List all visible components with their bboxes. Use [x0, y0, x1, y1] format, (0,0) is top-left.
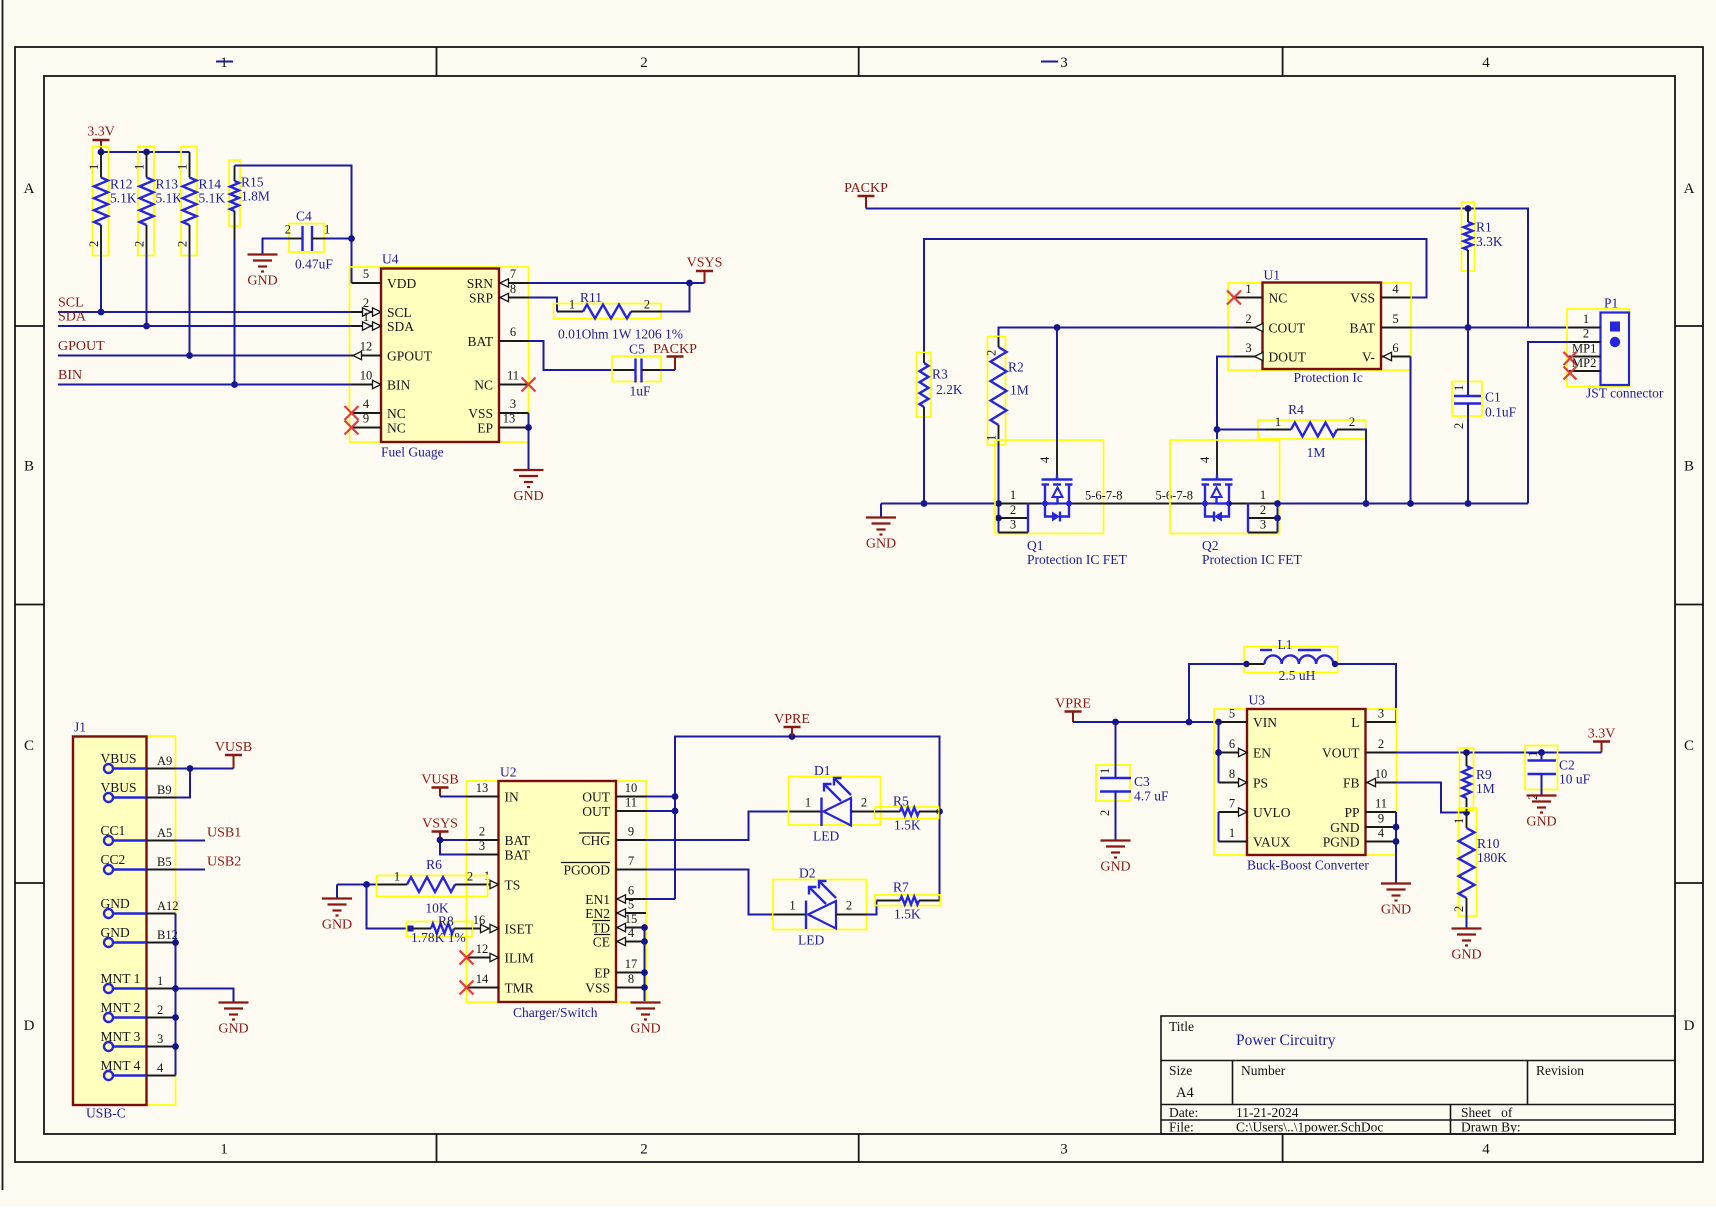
resistor R3	[917, 353, 963, 418]
svg-text:1: 1	[1098, 768, 1112, 774]
P1 pin 2	[1569, 327, 1601, 343]
svg-text:1: 1	[220, 1142, 228, 1158]
svg-text:2: 2	[1245, 312, 1251, 326]
wire R4 pin2 to GND bus	[1362, 430, 1369, 507]
svg-text:5: 5	[363, 267, 369, 281]
capacitor C2	[1525, 746, 1591, 801]
wire P1 pin2 to GND bus	[1528, 342, 1569, 504]
wire OUT11	[646, 810, 675, 812]
U3 pin 2 VOUT	[1322, 737, 1396, 761]
svg-text:2: 2	[640, 55, 648, 71]
LED D2	[773, 866, 867, 948]
svg-text:GND: GND	[866, 537, 896, 552]
IC U4 Fuel Gauge	[350, 252, 529, 460]
J1 pin 3 MNT 3	[101, 1029, 176, 1051]
svg-text:CC1: CC1	[101, 823, 126, 838]
svg-text:4: 4	[1482, 55, 1490, 71]
svg-text:SDA: SDA	[58, 310, 87, 325]
U2 pin 13 IN	[467, 781, 519, 805]
J1 pin 2 MNT 2	[101, 1000, 176, 1022]
U3 pin 5 VIN	[1219, 707, 1278, 731]
svg-text:1: 1	[133, 164, 147, 170]
svg-text:B: B	[24, 459, 34, 475]
svg-text:VOUT: VOUT	[1322, 746, 1360, 761]
svg-text:16: 16	[473, 913, 486, 927]
U4 pin 9 NC	[345, 412, 406, 436]
svg-text:Title: Title	[1169, 1019, 1194, 1034]
U2 pin 16 ISET	[472, 913, 534, 937]
svg-text:7: 7	[1229, 797, 1235, 811]
svg-text:6: 6	[1229, 737, 1235, 751]
svg-text:13: 13	[503, 412, 516, 426]
power symbol VUSB at J1	[215, 740, 252, 769]
svg-text:7: 7	[628, 854, 634, 868]
svg-text:17: 17	[625, 957, 638, 971]
transistor Q2	[1170, 440, 1280, 534]
svg-text:BAT: BAT	[467, 334, 493, 349]
svg-text:4: 4	[1038, 456, 1052, 463]
svg-text:VIN: VIN	[1253, 715, 1277, 730]
svg-text:3: 3	[1060, 55, 1068, 71]
svg-text:14: 14	[476, 972, 489, 986]
svg-text:Revision: Revision	[1536, 1063, 1584, 1078]
svg-text:3: 3	[1378, 707, 1384, 721]
svg-text:Size: Size	[1169, 1063, 1192, 1078]
svg-text:VBUS: VBUS	[101, 780, 137, 795]
svg-text:5: 5	[1392, 312, 1398, 326]
svg-text:R9: R9	[1476, 767, 1492, 782]
svg-text:PGOOD: PGOOD	[563, 863, 610, 878]
U3 pin 4 PGND	[1323, 826, 1396, 850]
svg-text:NC: NC	[1269, 291, 1288, 306]
svg-text:2: 2	[87, 241, 101, 247]
svg-text:A4: A4	[1176, 1085, 1194, 1101]
Q1 pins join	[1027, 504, 1029, 533]
U4 pin 11 NC	[474, 369, 535, 393]
Q1 pin 3	[999, 518, 1029, 533]
U4 pin 4 NC	[345, 397, 406, 421]
wire L1 to L pin	[1335, 664, 1396, 722]
wire GPOUT	[58, 355, 352, 357]
U2 pin 17 EP	[594, 957, 646, 981]
svg-text:R2: R2	[1008, 360, 1024, 375]
svg-text:CC2: CC2	[101, 852, 126, 867]
svg-text:TMR: TMR	[505, 981, 534, 996]
svg-text:9: 9	[363, 412, 369, 426]
power symbol VSYS at U2	[422, 817, 458, 841]
svg-text:1: 1	[805, 796, 811, 810]
svg-text:GND: GND	[247, 274, 277, 289]
svg-text:U4: U4	[382, 252, 399, 267]
svg-text:2: 2	[1010, 503, 1016, 517]
ground GND at U2	[630, 1003, 660, 1037]
svg-text:VUSB: VUSB	[215, 740, 252, 755]
U4 pin 13 EP	[477, 412, 528, 436]
svg-text:MNT 1: MNT 1	[101, 971, 141, 986]
ground GND at C2	[1526, 796, 1556, 830]
svg-text:4: 4	[1198, 456, 1212, 463]
wire VSS4 to R3	[924, 239, 1427, 353]
wire C1 to GND bus	[1465, 404, 1472, 507]
svg-text:3: 3	[1260, 518, 1266, 532]
wire BAT to C5	[529, 341, 614, 370]
svg-text:1: 1	[569, 298, 575, 312]
U2 pin 7 PGOOD	[561, 854, 646, 878]
svg-text:1M: 1M	[1307, 445, 1326, 460]
svg-text:3: 3	[157, 1032, 163, 1046]
wire SRN to VSYS	[529, 280, 705, 287]
svg-text:OUT: OUT	[582, 790, 610, 805]
svg-text:C4: C4	[296, 209, 312, 224]
svg-text:SCL: SCL	[387, 305, 412, 320]
power symbol 3.3V	[87, 125, 115, 153]
svg-text:3.3V: 3.3V	[87, 125, 115, 140]
svg-text:1M: 1M	[1010, 383, 1029, 398]
svg-text:R3: R3	[932, 367, 948, 382]
svg-text:5.1K: 5.1K	[156, 191, 183, 206]
U1 pin 4 VSS	[1350, 282, 1410, 306]
svg-text:GND: GND	[1381, 903, 1411, 918]
svg-text:R7: R7	[893, 880, 909, 895]
svg-text:NC: NC	[387, 406, 406, 421]
svg-text:0.01Ohm 1W 1206 1%: 0.01Ohm 1W 1206 1%	[558, 327, 683, 342]
wire R15 to BIN	[231, 240, 238, 388]
svg-text:Power Circuitry: Power Circuitry	[1236, 1032, 1336, 1049]
svg-text:7: 7	[510, 267, 516, 281]
svg-text:BAT: BAT	[1349, 321, 1375, 336]
svg-text:Q2: Q2	[1202, 538, 1219, 553]
svg-text:VAUX: VAUX	[1253, 835, 1291, 850]
svg-text:2: 2	[1452, 906, 1466, 912]
svg-text:GND: GND	[218, 1022, 248, 1037]
inductor L1	[1243, 637, 1338, 683]
svg-text:1M: 1M	[1476, 781, 1495, 796]
svg-text:GND: GND	[1526, 815, 1556, 830]
wire UVLO VAUX join	[1218, 812, 1220, 842]
svg-text:L1: L1	[1278, 637, 1293, 652]
svg-text:11: 11	[625, 796, 637, 810]
LED D1	[789, 763, 881, 844]
svg-text:VDD: VDD	[387, 276, 416, 291]
svg-text:2: 2	[1260, 503, 1266, 517]
svg-text:2: 2	[467, 870, 473, 884]
svg-text:1: 1	[1275, 415, 1281, 429]
svg-text:C5: C5	[629, 342, 645, 357]
svg-text:D2: D2	[799, 866, 816, 881]
svg-text:15: 15	[625, 912, 638, 926]
svg-text:MNT 4: MNT 4	[101, 1058, 141, 1073]
svg-text:2: 2	[479, 825, 485, 839]
svg-text:4: 4	[363, 397, 370, 411]
svg-text:IN: IN	[505, 790, 519, 805]
svg-text:PACKP: PACKP	[653, 342, 697, 357]
wire C4 pin2 to GND	[263, 239, 291, 255]
svg-text:2: 2	[176, 241, 190, 247]
svg-text:JST connector: JST connector	[1586, 386, 1664, 401]
wire PACKP rail	[866, 205, 1528, 327]
Q2 pin 3	[1248, 518, 1278, 533]
wire MNT1 to GND	[176, 989, 234, 1003]
resistor R1	[1462, 202, 1503, 271]
wire R3 to GND bus	[921, 417, 928, 507]
svg-text:GND: GND	[1100, 860, 1130, 875]
wire VSYS to BAT pins	[437, 837, 467, 855]
svg-text:ILIM: ILIM	[505, 951, 534, 966]
wire CHG to D1	[646, 812, 790, 841]
wire PGOOD to D2	[646, 870, 774, 915]
svg-text:File:: File:	[1169, 1120, 1194, 1135]
svg-text:R10: R10	[1477, 836, 1500, 851]
svg-text:BAT: BAT	[505, 848, 531, 863]
svg-text:1: 1	[157, 974, 163, 988]
svg-text:1uF: 1uF	[629, 384, 651, 399]
svg-text:UVLO: UVLO	[1253, 805, 1291, 820]
svg-text:4: 4	[157, 1061, 164, 1075]
svg-text:SRN: SRN	[467, 276, 494, 291]
power symbol PACKP at C5	[653, 342, 697, 370]
svg-text:1: 1	[176, 164, 190, 170]
svg-text:SDA: SDA	[387, 319, 414, 334]
U4 pin 3 VSS	[468, 397, 528, 421]
junction V- bus	[1407, 500, 1414, 507]
U4 pin 8 SRP	[469, 282, 529, 306]
svg-text:3: 3	[1010, 518, 1016, 532]
svg-text:2: 2	[133, 241, 147, 247]
wire BAT to P1 pin1	[1411, 327, 1570, 329]
svg-text:13: 13	[476, 781, 489, 795]
power symbol 3.3V at U3	[1588, 727, 1616, 753]
U4 pin 7 SRN	[467, 267, 529, 291]
svg-text:10: 10	[625, 781, 638, 795]
svg-text:3: 3	[510, 397, 516, 411]
svg-text:USB-C: USB-C	[86, 1106, 126, 1121]
svg-text:4: 4	[1378, 826, 1385, 840]
svg-text:Sheet of: Sheet of	[1461, 1105, 1513, 1120]
svg-text:BIN: BIN	[58, 368, 82, 383]
svg-text:1: 1	[1526, 751, 1540, 757]
svg-text:GND: GND	[101, 896, 130, 911]
svg-text:Protection IC FET: Protection IC FET	[1027, 552, 1127, 567]
svg-text:A: A	[24, 181, 35, 197]
svg-text:V-: V-	[1362, 350, 1376, 365]
resistor R15	[229, 160, 270, 240]
wire VBUS to VUSB	[176, 765, 234, 797]
svg-text:BAT: BAT	[505, 833, 531, 848]
power symbol VSYS	[687, 256, 723, 284]
Q1 pin 5-6-7-8	[1073, 489, 1206, 504]
svg-text:2: 2	[1452, 423, 1466, 429]
svg-text:2: 2	[285, 223, 291, 237]
svg-text:1: 1	[1583, 312, 1589, 326]
U2 pin 6 EN1	[585, 884, 646, 908]
svg-text:P1: P1	[1604, 296, 1618, 311]
svg-text:PGND: PGND	[1323, 835, 1360, 850]
svg-text:PP: PP	[1344, 805, 1359, 820]
svg-text:R11: R11	[580, 290, 602, 305]
wire GND bus	[881, 503, 1528, 505]
wire PP GND PGND join	[1393, 812, 1400, 884]
svg-text:1: 1	[1229, 826, 1235, 840]
svg-text:0.47uF: 0.47uF	[295, 257, 333, 272]
svg-text:11: 11	[507, 369, 519, 383]
IC U3 Buck-Boost	[1214, 693, 1397, 873]
svg-text:C: C	[1684, 738, 1694, 754]
ground GND under U4	[513, 470, 543, 504]
svg-text:1: 1	[394, 870, 400, 884]
svg-text:Date:: Date:	[1169, 1105, 1198, 1120]
wire R2 to Q1 pins	[995, 445, 1002, 533]
svg-text:VSYS: VSYS	[422, 817, 458, 832]
wire R6 node to R8	[367, 885, 408, 929]
svg-text:4: 4	[628, 926, 635, 940]
svg-text:2: 2	[985, 350, 999, 356]
J1 pin B12 GND	[101, 925, 178, 947]
svg-text:1: 1	[789, 899, 795, 913]
Q2 pin 1	[1229, 488, 1281, 507]
svg-text:OUT: OUT	[582, 804, 610, 819]
wire R12 to SCL	[98, 254, 105, 315]
svg-text:Protection IC FET: Protection IC FET	[1202, 552, 1302, 567]
svg-text:EN: EN	[1253, 746, 1271, 761]
svg-text:10: 10	[1375, 767, 1388, 781]
ground GND at bus	[866, 504, 896, 552]
U4 pin 6 BAT	[467, 325, 528, 349]
wire VPRE to VIN	[1073, 719, 1222, 726]
J1 pin B5 CC2	[101, 852, 176, 874]
wire EN1	[646, 898, 675, 900]
J1 pin B9 VBUS	[101, 780, 176, 802]
svg-text:GND: GND	[1330, 820, 1359, 835]
svg-text:C:\Users\..\1power.SchDoc: C:\Users\..\1power.SchDoc	[1236, 1120, 1383, 1135]
wire COUT to R2	[999, 324, 1235, 337]
P1 pin 1	[1569, 312, 1601, 328]
svg-text:3.3K: 3.3K	[1476, 234, 1503, 249]
svg-text:3: 3	[1060, 1142, 1068, 1158]
wire EP VSS to GND	[641, 924, 648, 1001]
svg-text:LED: LED	[798, 933, 824, 948]
svg-text:R14: R14	[199, 177, 222, 192]
svg-text:2: 2	[1098, 810, 1112, 816]
J1 pin 1 MNT 1	[101, 971, 176, 993]
svg-text:R6: R6	[426, 857, 442, 872]
svg-text:2: 2	[640, 1142, 648, 1158]
svg-text:GND: GND	[513, 489, 543, 504]
svg-text:Q1: Q1	[1027, 538, 1044, 553]
svg-text:COUT: COUT	[1269, 321, 1307, 336]
svg-text:A9: A9	[157, 754, 172, 768]
U4 pin 12 GPOUT	[352, 340, 433, 364]
svg-text:L: L	[1351, 715, 1359, 730]
U3 pin 8 PS	[1219, 767, 1269, 791]
svg-text:R1: R1	[1476, 220, 1492, 235]
svg-text:VPRE: VPRE	[774, 712, 810, 727]
wire CC2 USB2	[176, 869, 206, 871]
wire OUT10	[646, 796, 675, 798]
wire VOUT to 3.3V	[1396, 749, 1602, 756]
svg-text:U2: U2	[500, 765, 517, 780]
svg-text:TS: TS	[505, 878, 521, 893]
svg-text:MNT 2: MNT 2	[101, 1000, 141, 1015]
svg-text:BIN: BIN	[387, 378, 411, 393]
svg-text:8: 8	[628, 972, 634, 986]
svg-text:D1: D1	[814, 763, 831, 778]
svg-text:VUSB: VUSB	[421, 773, 458, 788]
svg-text:C1: C1	[1485, 390, 1501, 405]
svg-text:CHG: CHG	[581, 833, 610, 848]
Q2 pins join	[1248, 504, 1278, 533]
power symbol VPRE at U2	[774, 712, 810, 737]
U2 pin 9 CHG	[579, 825, 646, 849]
svg-text:VSYS: VSYS	[687, 256, 723, 271]
svg-text:Buck-Boost Converter: Buck-Boost Converter	[1247, 858, 1369, 873]
U4 pin 5 VDD	[352, 267, 417, 291]
svg-text:2.5 uH: 2.5 uH	[1279, 668, 1316, 683]
resistor R8	[407, 914, 473, 946]
svg-text:2.2K: 2.2K	[936, 382, 963, 397]
U2 pin 1 TS	[481, 869, 520, 893]
svg-text:U1: U1	[1264, 268, 1281, 283]
J1 pin A5 CC1	[101, 823, 176, 845]
wire R15 to VDD	[235, 166, 355, 284]
resistor R2	[985, 337, 1029, 446]
transistor Q1	[995, 440, 1104, 534]
svg-text:2: 2	[157, 1003, 163, 1017]
resistor R11	[554, 290, 684, 342]
svg-text:GND: GND	[1451, 948, 1481, 963]
svg-text:5-6-7-8: 5-6-7-8	[1156, 489, 1194, 503]
U4 pin 10 BIN	[352, 369, 411, 393]
wire C5 to PACKP	[660, 369, 675, 371]
svg-text:1.78K 1%: 1.78K 1%	[411, 930, 466, 945]
Q2 pin 2	[1248, 503, 1281, 521]
resistor R5	[875, 794, 939, 833]
IC U2 Charger Switch	[467, 765, 647, 1021]
Q1 pin 1	[999, 488, 1042, 504]
svg-text:8: 8	[510, 282, 516, 296]
U3 pin 11 PP	[1344, 797, 1396, 821]
svg-text:B: B	[1684, 459, 1694, 475]
svg-text:TD: TD	[592, 921, 610, 936]
U3 pin 1 VAUX	[1219, 826, 1291, 850]
wire DOUT to Q2 gate	[1214, 357, 1234, 444]
svg-text:1: 1	[1260, 488, 1266, 502]
svg-text:2: 2	[846, 899, 852, 913]
resistor R4	[1258, 402, 1366, 460]
wire R13 to SDA	[143, 254, 150, 329]
svg-text:Drawn By:: Drawn By:	[1461, 1120, 1521, 1135]
svg-text:MNT 3: MNT 3	[101, 1029, 141, 1044]
svg-text:VPRE: VPRE	[1055, 697, 1091, 712]
P1 pin MP1	[1564, 342, 1601, 366]
U1 pin 2 COUT	[1234, 312, 1306, 336]
wire R11 to VSYS node	[662, 283, 690, 312]
svg-text:VSS: VSS	[1350, 291, 1375, 306]
ground GND under C4	[247, 255, 277, 289]
svg-text:Number: Number	[1241, 1063, 1286, 1078]
svg-text:GND: GND	[101, 925, 130, 940]
svg-text:2: 2	[1349, 415, 1355, 429]
svg-text:6: 6	[510, 325, 516, 339]
svg-text:5.1K: 5.1K	[110, 191, 137, 206]
svg-text:1: 1	[1452, 818, 1466, 824]
resistor R10	[1452, 808, 1507, 916]
svg-text:1: 1	[1010, 488, 1016, 502]
svg-text:VSS: VSS	[468, 406, 493, 421]
resistor R6	[377, 857, 488, 916]
wire 3.3V bus	[98, 149, 190, 156]
svg-text:D: D	[24, 1018, 35, 1034]
wire J1 grounds join	[172, 914, 179, 1076]
